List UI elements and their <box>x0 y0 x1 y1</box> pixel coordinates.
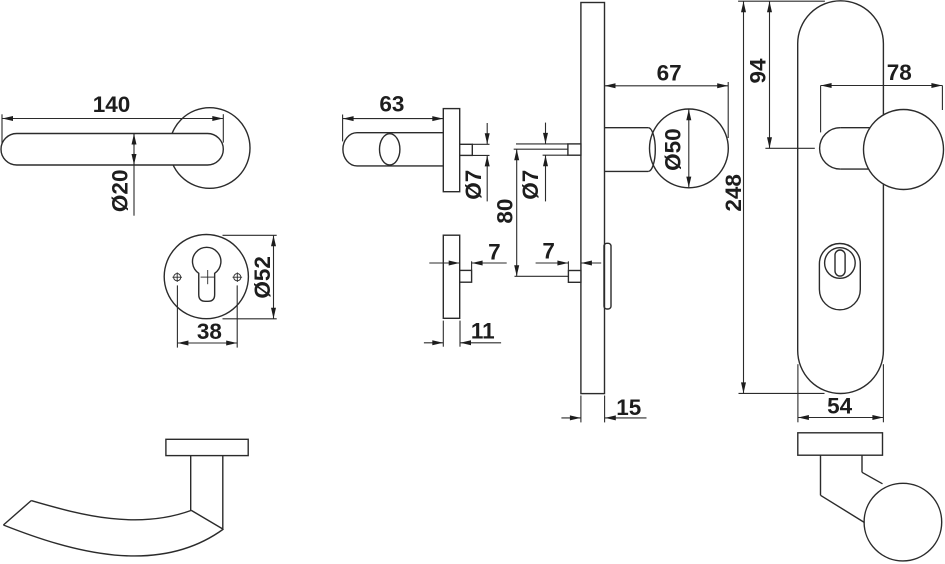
svg-text:248: 248 <box>721 174 746 212</box>
svg-text:78: 78 <box>887 60 912 85</box>
svg-text:67: 67 <box>657 60 682 85</box>
svg-text:63: 63 <box>379 92 404 117</box>
svg-text:7: 7 <box>542 238 555 263</box>
svg-text:Ø20: Ø20 <box>107 170 132 213</box>
svg-text:140: 140 <box>93 92 131 117</box>
svg-text:Ø50: Ø50 <box>661 128 686 171</box>
svg-text:Ø52: Ø52 <box>250 256 275 299</box>
svg-text:80: 80 <box>493 199 518 224</box>
svg-text:94: 94 <box>746 58 771 84</box>
svg-text:15: 15 <box>616 395 641 420</box>
svg-text:7: 7 <box>488 239 501 264</box>
svg-text:38: 38 <box>197 319 222 344</box>
svg-text:Ø7: Ø7 <box>518 170 543 200</box>
svg-text:11: 11 <box>471 319 495 344</box>
svg-text:54: 54 <box>827 394 853 419</box>
svg-text:Ø7: Ø7 <box>461 170 486 200</box>
